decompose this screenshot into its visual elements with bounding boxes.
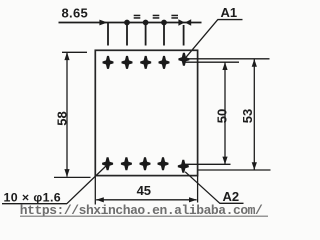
- extension line top right (A1 hole centerline, for dim 53): [182, 58, 270, 60]
- dimension 58 text: [54, 111, 69, 125]
- extension line bottom for dim 50: [184, 163, 231, 165]
- extension line bottom for dim 53: [198, 169, 270, 171]
- dimension 8.65 line (top rail): [59, 22, 202, 24]
- label 10 x phi 1.6 leader: [67, 166, 107, 204]
- junction dot 3: [161, 20, 167, 26]
- label A1 leader: [183, 20, 218, 61]
- terminal pin 5: [183, 25, 185, 46]
- extension line bottom left (for dim 58): [54, 176, 91, 178]
- extension line top right (hole row centerline, for dim 50): [186, 61, 240, 63]
- svg-text:58: 58: [54, 111, 69, 125]
- watermark url text: [20, 203, 268, 218]
- dimension 45 text: [137, 183, 151, 198]
- svg-text:10 × φ1.6: 10 × φ1.6: [4, 190, 62, 204]
- svg-text:8.65: 8.65: [62, 6, 89, 21]
- dimension 50 line: [222, 62, 227, 164]
- opposed arrow pair at pin 5: [178, 19, 191, 26]
- label A2: [223, 189, 240, 204]
- terminal pin 4: [163, 23, 165, 46]
- svg-text:A1: A1: [221, 5, 238, 20]
- hole marker bottom 1: [103, 158, 113, 170]
- equals mark 3: [171, 15, 178, 19]
- label A2 leader: [185, 172, 220, 204]
- svg-text:A2: A2: [223, 189, 240, 204]
- label A1: [221, 5, 238, 20]
- hole marker bottom 2: [122, 158, 132, 170]
- svg-text:53: 53: [240, 109, 255, 123]
- dimension 45 line: [96, 197, 197, 202]
- dimension 53 text: [240, 109, 255, 123]
- terminal pin 1: [107, 23, 109, 46]
- hole marker top 3: [141, 57, 151, 69]
- equals mark 1: [134, 15, 141, 19]
- hole marker bottom 4: [158, 158, 168, 170]
- svg-text:45: 45: [137, 183, 151, 198]
- body outline: [95, 50, 197, 175]
- hole marker top 1: [103, 57, 113, 69]
- dimension 8.65 text: [62, 6, 89, 21]
- dimension 58 line: [64, 52, 69, 177]
- terminal pin 3: [145, 23, 147, 46]
- equals mark 2: [153, 15, 160, 19]
- body right edge extension down: [197, 176, 199, 203]
- label A1 underline: [218, 19, 243, 21]
- hole marker bottom 5 (A2): [178, 160, 188, 172]
- body left edge extension down: [94, 176, 96, 205]
- hole marker top 5 (A1): [179, 53, 189, 65]
- label 10 x phi 1.6 underline: [2, 203, 67, 205]
- dimension 53 line: [252, 59, 257, 170]
- extension line top left (for dim 58): [62, 51, 87, 53]
- svg-text:50: 50: [214, 109, 229, 123]
- junction dot 1: [124, 20, 130, 26]
- hole marker top 4: [159, 57, 169, 69]
- dimension 8.65 arrow: [99, 20, 107, 26]
- dimension 50 text: [214, 109, 229, 123]
- junction dot 2: [143, 20, 149, 26]
- hole marker top 2: [122, 57, 132, 69]
- terminal pin 2: [126, 23, 128, 46]
- label A2 underline: [220, 202, 244, 204]
- hole marker bottom 3: [140, 158, 150, 170]
- label 10 x phi 1.6: [4, 190, 62, 204]
